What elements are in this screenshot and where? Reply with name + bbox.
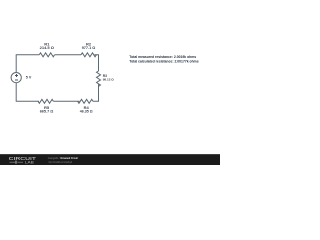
svg-text:98.12 Ω: 98.12 Ω	[103, 78, 115, 82]
voltage source plus sign	[15, 74, 18, 77]
voltage source minus sign	[15, 79, 18, 81]
resistor R1	[39, 53, 54, 57]
svg-text:Total calculated resistance: 2: Total calculated resistance: 2.00177k oh…	[129, 60, 198, 64]
resistor R4	[78, 99, 93, 103]
svg-text:Imangold1 / Unnamed Circuit: Imangold1 / Unnamed Circuit	[48, 156, 78, 160]
resistor R3	[97, 71, 101, 86]
resistor R2	[81, 53, 96, 57]
wire between R1 and R2	[55, 54, 81, 56]
svg-text:214.5 Ω: 214.5 Ω	[40, 45, 55, 50]
svg-text:46.35 Ω: 46.35 Ω	[80, 109, 93, 113]
svg-text:http://circuitlab.com/c/pe6yp9: http://circuitlab.com/c/pe6yp9	[49, 160, 73, 164]
voltage source V1 circle	[11, 73, 21, 83]
svg-text:LAB: LAB	[25, 160, 35, 164]
resistor R5	[38, 99, 53, 103]
svg-text:5 V: 5 V	[26, 76, 32, 80]
svg-text:665.7 Ω: 665.7 Ω	[40, 110, 54, 114]
wire top-right corner	[94, 55, 98, 71]
footer black bar	[0, 154, 220, 165]
wire right-bottom segment	[93, 84, 99, 101]
wire bottom-left corner	[16, 83, 39, 102]
wire top-left segment	[16, 55, 39, 73]
svg-text:977.1 Ω: 977.1 Ω	[82, 46, 96, 50]
wire between R4 and R5	[53, 100, 79, 102]
logo capacitor symbol and LAB	[10, 161, 24, 164]
